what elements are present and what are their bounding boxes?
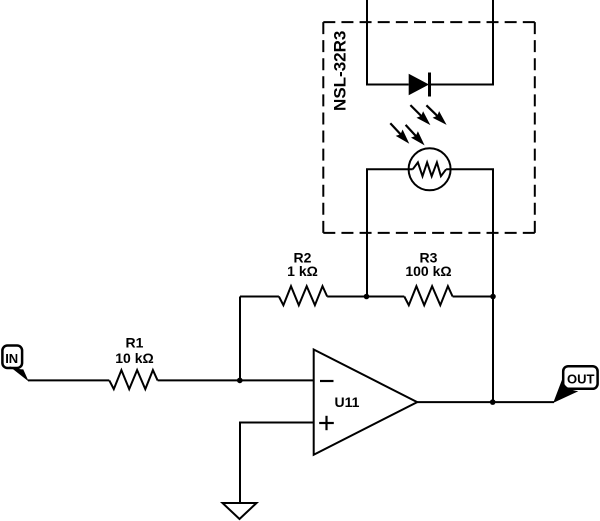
op-amp U11 xyxy=(314,350,418,455)
wire: R3 to right vertical xyxy=(453,296,493,298)
svg-text:10 kΩ: 10 kΩ xyxy=(115,350,153,366)
svg-text:R1: R1 xyxy=(126,334,144,350)
wire: feedback row from left corner to R2 xyxy=(240,296,279,298)
node junction dot output xyxy=(490,399,496,405)
resistor R2 xyxy=(279,286,327,305)
wire: non-inverting input row xyxy=(240,423,314,504)
label NSL-32R3 xyxy=(330,31,349,111)
label R2 value xyxy=(287,250,318,280)
svg-text:1 kΩ: 1 kΩ xyxy=(287,263,318,279)
svg-text:OUT: OUT xyxy=(567,371,595,386)
resistor R1 xyxy=(109,370,157,389)
wire: between R2 and R3 xyxy=(327,296,404,298)
photoresistor LDR1 (circle with zigzag) xyxy=(409,148,451,190)
node OUT flag xyxy=(553,366,597,403)
wire: photoresistor left lead and vertical down to feedback node xyxy=(367,169,413,296)
light emission arrows from LED xyxy=(410,105,446,125)
resistor R3 xyxy=(404,286,452,305)
node IN flag xyxy=(2,346,28,382)
wire: top-left vertical into LED anode xyxy=(367,0,409,85)
wire: IN to R1 xyxy=(28,379,109,381)
node junction dot between R2 and R3 xyxy=(364,294,370,300)
node junction dot R3 right xyxy=(490,294,496,300)
wire: R1 to op-amp inverting input xyxy=(158,379,314,381)
svg-text:U11: U11 xyxy=(335,394,360,410)
LED D1 xyxy=(409,73,430,97)
wire: feedback left vertical down to inverting input xyxy=(239,297,241,381)
wire: op-amp output xyxy=(417,401,554,403)
svg-text:IN: IN xyxy=(5,351,18,366)
wire: top-right vertical into LED cathode xyxy=(430,0,494,85)
wire: photoresistor right lead and vertical down to op-amp output node xyxy=(446,169,493,402)
node junction dot inverting input xyxy=(237,378,243,384)
optocoupler package outline NSL-32R3 (dashed box) xyxy=(323,22,535,233)
label R1 value xyxy=(115,334,153,366)
svg-text:100 kΩ: 100 kΩ xyxy=(405,263,451,279)
light arrows into photoresistor xyxy=(390,123,424,145)
label R3 value xyxy=(405,250,451,280)
ground xyxy=(223,503,257,519)
svg-text:NSL-32R3: NSL-32R3 xyxy=(330,31,349,111)
